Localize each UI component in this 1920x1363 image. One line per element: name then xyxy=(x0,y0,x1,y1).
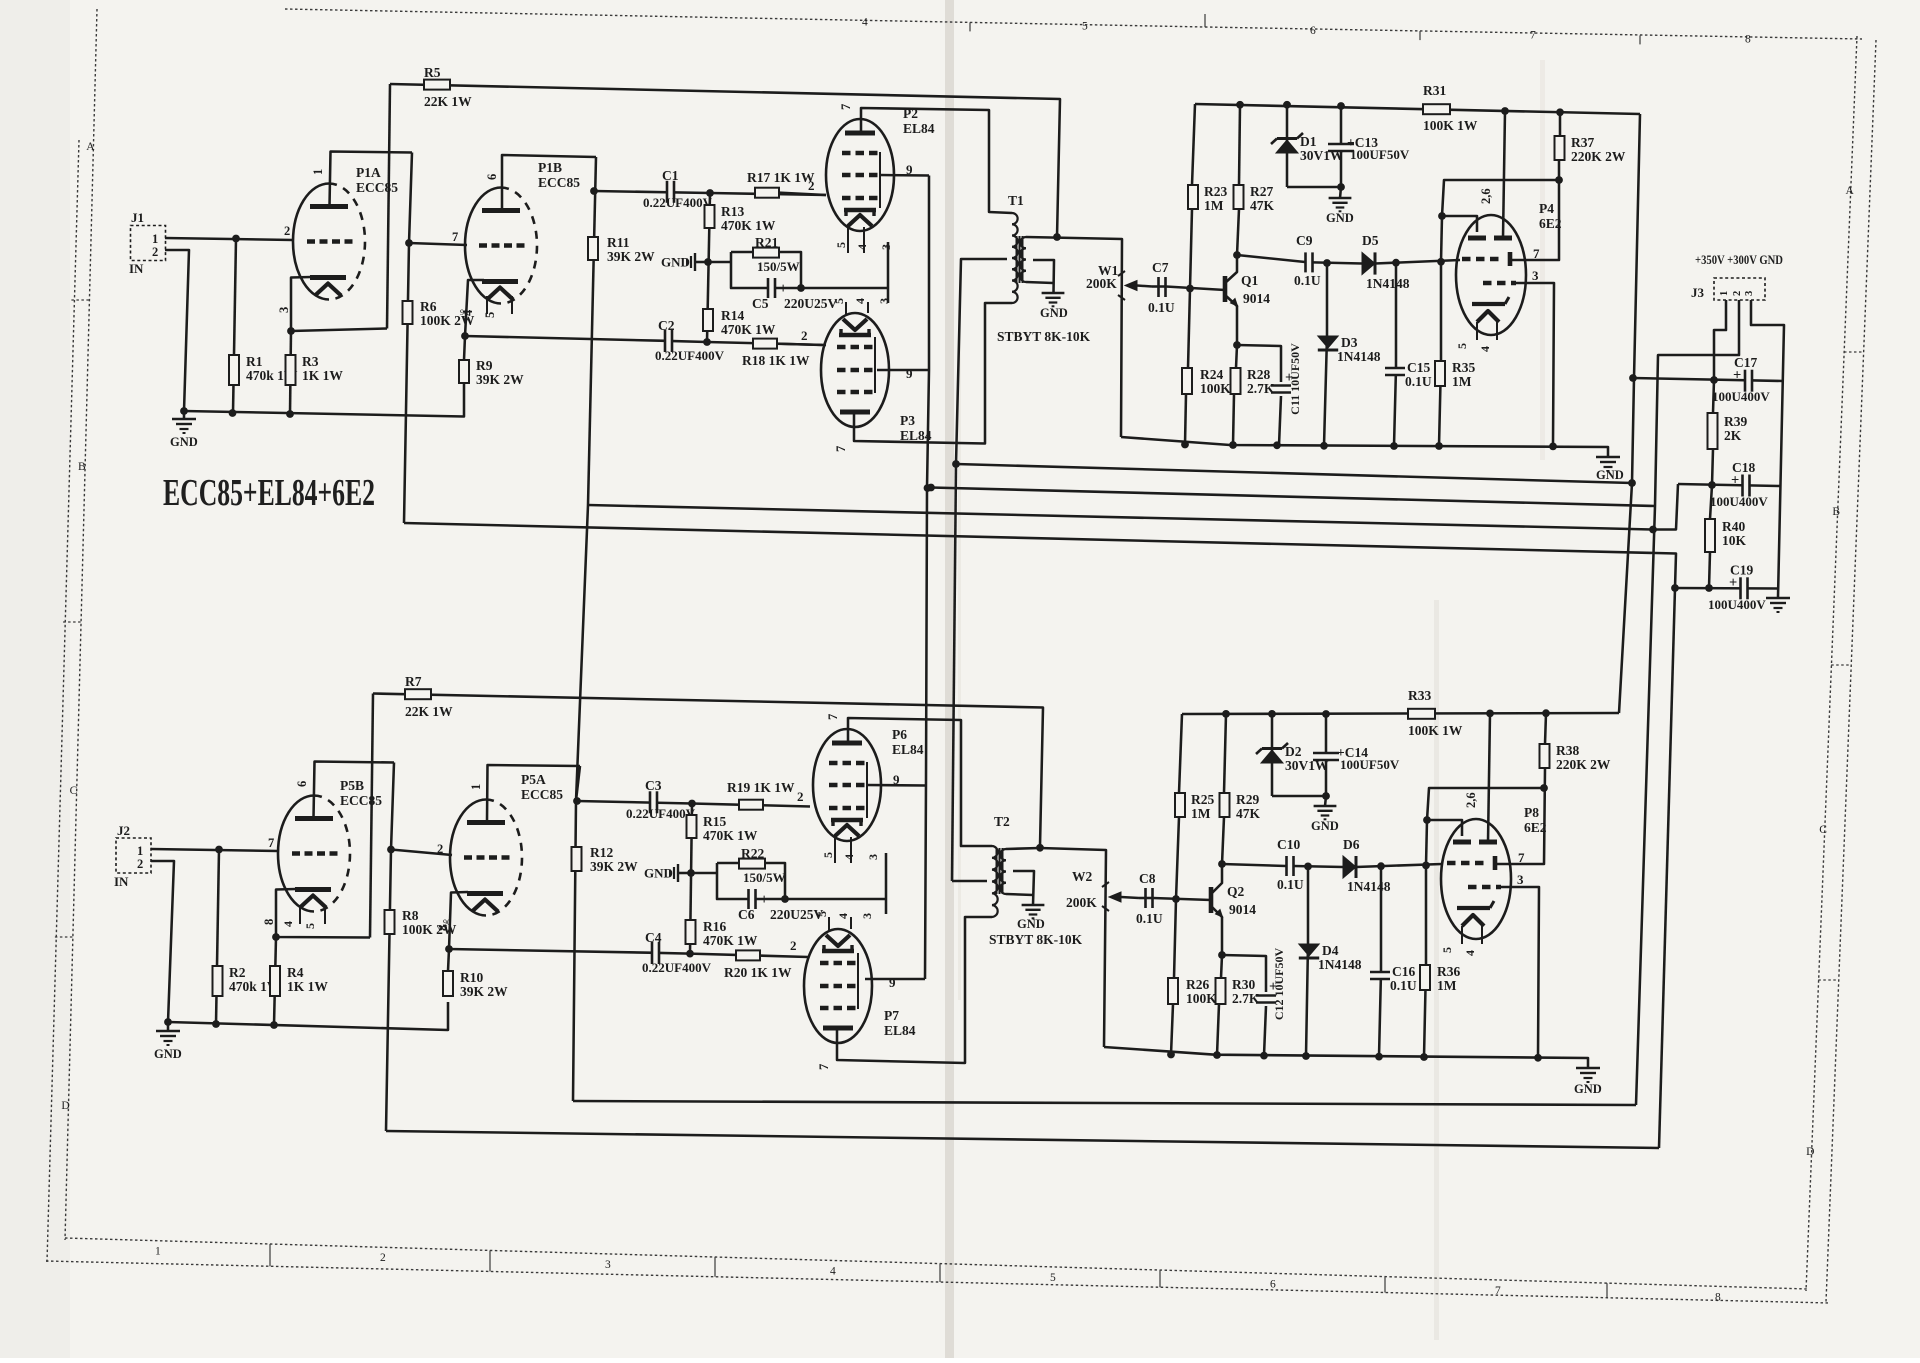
svg-text:47K: 47K xyxy=(1250,198,1275,213)
node bus B left xyxy=(927,484,935,492)
node C15 top xyxy=(1392,259,1400,267)
wire R39-R40 link xyxy=(1710,449,1713,519)
wire J1 pin2 down xyxy=(165,250,189,411)
svg-text:200K: 200K xyxy=(1086,276,1117,291)
svg-text:C18: C18 xyxy=(1732,460,1755,475)
svg-text:D: D xyxy=(1806,1146,1814,1158)
svg-text:STBYT 8K-10K: STBYT 8K-10K xyxy=(997,329,1091,344)
node R4 bottom xyxy=(270,1021,278,1029)
svg-text:47K: 47K xyxy=(1236,806,1261,821)
ground GND D2C14 xyxy=(1311,806,1339,833)
wire C2 row xyxy=(660,341,707,342)
wire bus D xyxy=(404,523,1676,588)
node R15 top xyxy=(688,800,696,808)
svg-text:R14: R14 xyxy=(721,308,744,323)
svg-text:R24: R24 xyxy=(1200,367,1223,382)
svg-text:220K 2W: 220K 2W xyxy=(1556,757,1611,772)
svg-text:R31: R31 xyxy=(1423,83,1446,98)
wire C3 row xyxy=(577,801,692,804)
wire R30 to rail xyxy=(1217,1004,1219,1055)
svg-text:0.1U: 0.1U xyxy=(1277,877,1304,892)
resistor R7 xyxy=(405,674,453,719)
svg-text:3: 3 xyxy=(1517,872,1524,887)
svg-text:5: 5 xyxy=(303,923,317,929)
node D3 top xyxy=(1323,259,1331,267)
capacitor C11 xyxy=(1271,343,1302,445)
node rail joint xyxy=(1320,442,1328,450)
resistor R21 xyxy=(753,235,800,274)
svg-text:C11 10UF50V: C11 10UF50V xyxy=(1288,343,1302,415)
resistor R23 xyxy=(1188,184,1227,213)
node R27 rail xyxy=(1236,101,1244,109)
resistor R38 xyxy=(1540,743,1611,772)
svg-text:C16: C16 xyxy=(1392,964,1415,979)
capacitor C5 xyxy=(752,278,837,311)
svg-text:+: + xyxy=(760,892,768,908)
svg-text:A: A xyxy=(86,141,95,153)
label T2 type xyxy=(989,932,1083,947)
node C19 left xyxy=(1671,584,1679,592)
resistor R24 xyxy=(1182,367,1231,396)
diode D3 xyxy=(1318,335,1381,364)
svg-text:T1: T1 xyxy=(1008,193,1024,208)
wire R17 row xyxy=(710,193,826,195)
resistor R40 xyxy=(1705,519,1747,552)
wire R28 to rail xyxy=(1233,394,1234,445)
wire grid link xyxy=(1441,216,1442,262)
svg-text:1M: 1M xyxy=(1191,806,1211,821)
wire R29 branch xyxy=(1224,714,1226,793)
wire T2 tap xyxy=(952,880,987,883)
svg-text:2,6: 2,6 xyxy=(1464,792,1478,808)
wire cathode link xyxy=(801,242,888,303)
wire emitter node xyxy=(1236,345,1281,382)
resistor R12 xyxy=(572,845,639,874)
node base divider xyxy=(1186,285,1194,293)
wire bus A +350V xyxy=(956,464,1632,483)
node target-grid 2 xyxy=(1423,816,1431,824)
wire J3 pin2 xyxy=(1636,300,1739,1105)
svg-text:R22: R22 xyxy=(741,846,764,861)
svg-text:C15: C15 xyxy=(1407,360,1430,375)
resistor R1 xyxy=(229,354,298,385)
svg-text:R11: R11 xyxy=(607,235,630,250)
wire g2 vertical xyxy=(925,176,929,980)
wire P3 plate to T1 xyxy=(854,303,1012,444)
wire W1 branch xyxy=(1057,238,1122,437)
wire target left lead 2 xyxy=(1427,820,1462,836)
wire bottom rail top half xyxy=(1121,437,1608,457)
node P5A grid tap xyxy=(387,846,395,854)
svg-text:C3: C3 xyxy=(645,778,662,793)
svg-text:8: 8 xyxy=(436,925,450,931)
ground GND rail bottom xyxy=(1574,1068,1602,1096)
svg-text:3: 3 xyxy=(879,244,893,250)
ground small GND cap P1 xyxy=(661,253,708,271)
svg-text:39K 2W: 39K 2W xyxy=(590,859,638,874)
wire P2 g2 wire xyxy=(880,174,929,177)
node base divider 2 xyxy=(1172,895,1180,903)
capacitor C16 xyxy=(1370,964,1417,993)
connector J1 xyxy=(129,210,166,276)
wire R36 branch xyxy=(1424,865,1426,1057)
svg-text:100U400V: 100U400V xyxy=(1710,494,1768,509)
svg-text:1: 1 xyxy=(155,1246,161,1258)
svg-text:R25: R25 xyxy=(1191,792,1214,807)
svg-text:R26: R26 xyxy=(1186,977,1209,992)
wire R38 to plate xyxy=(1497,768,1545,864)
svg-text:2: 2 xyxy=(380,1252,386,1264)
svg-text:R23: R23 xyxy=(1204,184,1227,199)
svg-text:P5A: P5A xyxy=(521,772,546,787)
svg-text:8: 8 xyxy=(1745,34,1751,46)
diode D5 xyxy=(1362,233,1410,291)
svg-text:1: 1 xyxy=(152,232,158,246)
node rail joint xyxy=(1273,441,1281,449)
wire R13-R14 branch xyxy=(707,193,710,342)
svg-text:100K: 100K xyxy=(1186,991,1217,1006)
svg-text:5: 5 xyxy=(483,312,497,318)
svg-text:GND: GND xyxy=(1311,819,1339,833)
svg-text:ECC85: ECC85 xyxy=(340,793,382,808)
svg-text:6E2: 6E2 xyxy=(1524,820,1547,835)
svg-text:22K 1W: 22K 1W xyxy=(424,94,472,109)
wire P3 heater stubs xyxy=(846,302,868,315)
node P1B grid tap xyxy=(405,239,413,247)
resistor R31 xyxy=(1423,83,1478,133)
pentode P3 xyxy=(801,298,932,452)
svg-text:C10: C10 xyxy=(1277,837,1300,852)
node C17 pin1 xyxy=(1710,376,1718,384)
svg-text:6: 6 xyxy=(1270,1278,1276,1290)
wire cathode link 2 xyxy=(785,853,886,914)
svg-text:100UF50V: 100UF50V xyxy=(1350,147,1410,162)
svg-text:R6: R6 xyxy=(420,299,437,314)
svg-text:7: 7 xyxy=(452,230,458,244)
wire R5 feedback vertical xyxy=(387,84,390,329)
svg-text:+350V +300V GND: +350V +300V GND xyxy=(1695,252,1783,267)
transformer T2 xyxy=(992,814,1010,917)
svg-text:W2: W2 xyxy=(1072,869,1093,884)
node bus A left xyxy=(952,460,960,468)
svg-text:Q2: Q2 xyxy=(1227,884,1245,899)
resistor R19 xyxy=(727,780,795,810)
wire R26 to rail xyxy=(1171,1004,1173,1055)
wire R23 branch xyxy=(1192,104,1195,185)
wire P4 cathode branch xyxy=(1516,283,1554,444)
resistor R36 xyxy=(1420,964,1460,993)
svg-text:2.7K: 2.7K xyxy=(1247,381,1275,396)
wire R15-R16 branch xyxy=(690,804,692,954)
svg-text:Q1: Q1 xyxy=(1241,273,1259,288)
svg-text:C: C xyxy=(1819,824,1827,836)
node R13 top xyxy=(706,189,714,197)
svg-text:7: 7 xyxy=(1495,1285,1501,1297)
wire P7 plate to T2 xyxy=(837,917,992,1063)
svg-text:C2: C2 xyxy=(658,318,675,333)
wire collector branch 2 xyxy=(1222,817,1224,864)
svg-text:C5: C5 xyxy=(752,296,769,311)
node C3 tap xyxy=(573,797,581,805)
svg-text:EL84: EL84 xyxy=(892,742,924,757)
svg-text:2,6: 2,6 xyxy=(1479,188,1493,204)
connector J3 xyxy=(1691,252,1783,300)
wire C17 row xyxy=(1633,378,1783,381)
resistor R9 xyxy=(459,358,524,387)
wire P5A grid xyxy=(391,850,452,856)
svg-text:5: 5 xyxy=(1440,947,1454,953)
wire C10 to D6 xyxy=(1294,866,1343,867)
wire P5B plate box xyxy=(314,762,395,819)
node R21 right xyxy=(797,284,805,292)
resistor R14 xyxy=(703,308,776,337)
svg-text:EL84: EL84 xyxy=(903,121,935,136)
svg-text:2: 2 xyxy=(152,245,158,259)
svg-text:0.1U: 0.1U xyxy=(1148,300,1175,315)
node gnd J2pin xyxy=(180,407,188,415)
svg-text:2: 2 xyxy=(801,328,808,343)
svg-text:R4: R4 xyxy=(287,965,304,980)
node target box xyxy=(1555,176,1563,184)
svg-text:0.22UF400V: 0.22UF400V xyxy=(642,960,712,975)
svg-text:R15: R15 xyxy=(703,814,726,829)
svg-text:R19 1K 1W: R19 1K 1W xyxy=(727,780,795,795)
node R10 top xyxy=(445,945,453,953)
svg-text:C8: C8 xyxy=(1139,871,1156,886)
node C13 bottom xyxy=(1337,183,1345,191)
svg-text:100K: 100K xyxy=(1200,381,1231,396)
wire R39 branch xyxy=(1713,380,1714,413)
connector J2 xyxy=(114,823,151,889)
wire P1B plate box xyxy=(502,155,596,210)
wire bus D to L xyxy=(1659,588,1675,1148)
capacitor C13 xyxy=(1328,105,1410,198)
svg-text:J2: J2 xyxy=(117,823,130,838)
node rail joint 2 xyxy=(1213,1051,1221,1059)
pentode P6 xyxy=(797,714,924,860)
node rail joint 2 xyxy=(1302,1052,1310,1060)
wire D5 out xyxy=(1375,260,1460,264)
resistor R16 xyxy=(686,919,758,948)
wire P6 g2 wire xyxy=(867,784,926,787)
wire R40 bottom xyxy=(1709,552,1710,588)
node C18 mid xyxy=(1708,481,1716,489)
svg-text:3: 3 xyxy=(277,307,291,313)
node C19 mid xyxy=(1705,584,1713,592)
svg-text:3: 3 xyxy=(877,298,891,304)
node C13 rail xyxy=(1337,102,1345,110)
svg-text:D1: D1 xyxy=(1300,134,1317,149)
capacitor C7 xyxy=(1148,260,1175,315)
svg-text:200K: 200K xyxy=(1066,895,1097,910)
node rail joint 2 xyxy=(1420,1053,1428,1061)
svg-text:6: 6 xyxy=(1310,25,1316,37)
capacitor C14 xyxy=(1313,714,1400,806)
resistor R20 xyxy=(724,950,792,980)
svg-text:2: 2 xyxy=(797,789,804,804)
svg-text:R9: R9 xyxy=(476,358,493,373)
svg-text:D2: D2 xyxy=(1285,744,1302,759)
svg-text:C4: C4 xyxy=(645,930,662,945)
wire C10 row xyxy=(1222,864,1286,866)
svg-text:0.1U: 0.1U xyxy=(1136,911,1163,926)
node R36 top xyxy=(1422,862,1430,870)
svg-text:0.1U: 0.1U xyxy=(1294,273,1321,288)
wire P3 g2 wire xyxy=(877,369,929,372)
ground small GND cap P5 xyxy=(644,864,691,882)
node R2 top xyxy=(215,846,223,854)
svg-text:220U25V: 220U25V xyxy=(784,296,837,311)
wire R7 feedback vertical xyxy=(370,694,373,938)
transistor Q1 xyxy=(1225,255,1270,345)
svg-text:ECC85: ECC85 xyxy=(538,175,580,190)
node rail joint xyxy=(1435,442,1443,450)
svg-text:39K 2W: 39K 2W xyxy=(607,249,655,264)
resistor R6 xyxy=(403,299,475,328)
wire R18 row xyxy=(707,342,826,345)
wire bus C screen xyxy=(588,484,1678,530)
svg-text:1: 1 xyxy=(137,844,143,858)
wire R24 to rail xyxy=(1185,394,1186,445)
node rail joint xyxy=(1549,443,1557,451)
svg-text:D4: D4 xyxy=(1322,943,1339,958)
node rail joint xyxy=(1229,441,1237,449)
svg-text:100K 1W: 100K 1W xyxy=(1408,723,1463,738)
svg-text:7: 7 xyxy=(839,104,853,110)
wire P6 heater stubs xyxy=(835,835,851,863)
capacitor C12 xyxy=(1256,948,1286,1056)
wire R25 branch xyxy=(1179,714,1182,793)
svg-text:GND: GND xyxy=(1596,468,1624,482)
wire R27 branch xyxy=(1239,105,1240,185)
svg-text:R29: R29 xyxy=(1236,792,1259,807)
svg-text:R10: R10 xyxy=(460,970,483,985)
transistor Q2 xyxy=(1211,864,1256,955)
svg-text:4: 4 xyxy=(862,16,868,28)
wire J2 pin1 to P5B grid xyxy=(151,849,278,851)
node R35 top xyxy=(1437,258,1445,266)
ground GND T2 xyxy=(1017,905,1045,931)
node R14 bottom xyxy=(703,338,711,346)
wire ground bus bottom xyxy=(168,1002,448,1030)
node C14 rail xyxy=(1322,710,1330,718)
node gnd J2 xyxy=(164,1018,172,1026)
svg-text:470K 1W: 470K 1W xyxy=(703,828,758,843)
wire target box 2 xyxy=(1427,788,1544,820)
resistor R30 xyxy=(1216,977,1260,1006)
triode P1A xyxy=(277,165,398,313)
resistor R3 xyxy=(286,354,344,385)
svg-text:0.1U: 0.1U xyxy=(1390,978,1417,993)
svg-text:4: 4 xyxy=(855,244,869,250)
wire W2 branch xyxy=(1040,848,1106,1047)
wire R31 to column xyxy=(1619,114,1640,713)
wire R31 rail xyxy=(1195,104,1640,114)
wire R7 rail xyxy=(373,694,1043,847)
svg-text:2: 2 xyxy=(790,938,797,953)
resistor R33 xyxy=(1408,688,1463,738)
svg-text:C1: C1 xyxy=(662,168,679,183)
zener D2 xyxy=(1256,714,1329,796)
wire R1 branch xyxy=(233,239,236,414)
svg-text:3: 3 xyxy=(1744,291,1755,296)
node target-grid xyxy=(1438,212,1446,220)
svg-text:D6: D6 xyxy=(1343,837,1360,852)
svg-text:4: 4 xyxy=(1478,346,1492,352)
capacitor C17 xyxy=(1712,355,1770,404)
wire R20 row xyxy=(690,954,808,957)
wire P6 plate to T2 xyxy=(848,718,992,846)
svg-text:1: 1 xyxy=(1719,291,1730,296)
ground GND C19 xyxy=(1766,598,1790,612)
resistor R5 xyxy=(424,65,472,109)
node target box 2 xyxy=(1540,784,1548,792)
wire P5B cathode box xyxy=(276,889,370,938)
svg-text:9: 9 xyxy=(889,975,896,990)
svg-text:R2: R2 xyxy=(229,965,246,980)
svg-text:9: 9 xyxy=(906,366,913,381)
svg-text:D3: D3 xyxy=(1341,335,1358,350)
resistor R28 xyxy=(1231,367,1275,396)
svg-text:R21: R21 xyxy=(755,235,778,250)
svg-text:P4: P4 xyxy=(1539,201,1554,216)
resistor R27 xyxy=(1234,184,1275,213)
node C17 left xyxy=(1629,374,1637,382)
svg-text:R1: R1 xyxy=(246,354,263,369)
node R9 top xyxy=(461,332,469,340)
node collector 2 xyxy=(1218,860,1226,868)
node emitter 2 xyxy=(1218,951,1226,959)
svg-text:8: 8 xyxy=(262,919,276,925)
capacitor C18 xyxy=(1710,460,1768,509)
wire P5B heater stubs xyxy=(300,907,325,924)
capacitor C1 xyxy=(643,168,713,210)
svg-text:R16: R16 xyxy=(703,919,726,934)
svg-text:GND: GND xyxy=(154,1047,182,1061)
svg-text:1: 1 xyxy=(469,784,483,790)
svg-text:5: 5 xyxy=(834,242,848,248)
node rail joint 2 xyxy=(1375,1053,1383,1061)
svg-text:100K 1W: 100K 1W xyxy=(1423,118,1478,133)
svg-text:STBYT 8K-10K: STBYT 8K-10K xyxy=(989,932,1083,947)
svg-text:1N4148: 1N4148 xyxy=(1337,349,1381,364)
svg-text:R37: R37 xyxy=(1571,135,1594,150)
resistor R17 xyxy=(747,170,815,198)
wire P1A cathode box xyxy=(291,277,387,331)
wire P1A plate box xyxy=(330,152,413,207)
node R16 bottom xyxy=(686,950,694,958)
node D1 rail xyxy=(1283,101,1291,109)
svg-text:2: 2 xyxy=(284,224,290,238)
wire T1 secondary bottom xyxy=(1026,260,1054,293)
svg-text:ECC85+EL84+6E2: ECC85+EL84+6E2 xyxy=(163,472,375,514)
svg-text:8: 8 xyxy=(1715,1291,1721,1303)
svg-text:GND: GND xyxy=(1017,917,1045,931)
svg-text:P1B: P1B xyxy=(538,160,562,175)
wire C9 row xyxy=(1237,255,1305,262)
svg-text:7: 7 xyxy=(1533,246,1540,261)
svg-text:4: 4 xyxy=(461,309,475,316)
svg-text:220K 2W: 220K 2W xyxy=(1571,149,1626,164)
resistor R8 xyxy=(385,908,457,937)
wire grid link 2 xyxy=(1426,820,1427,865)
wire P8 target lead xyxy=(1488,713,1490,842)
ground GND input xyxy=(170,411,198,449)
capacitor C15 xyxy=(1385,360,1432,389)
wire C19 row xyxy=(1675,587,1778,590)
wire plate supply drop xyxy=(573,505,588,1101)
svg-text:ECC85: ECC85 xyxy=(356,180,398,195)
